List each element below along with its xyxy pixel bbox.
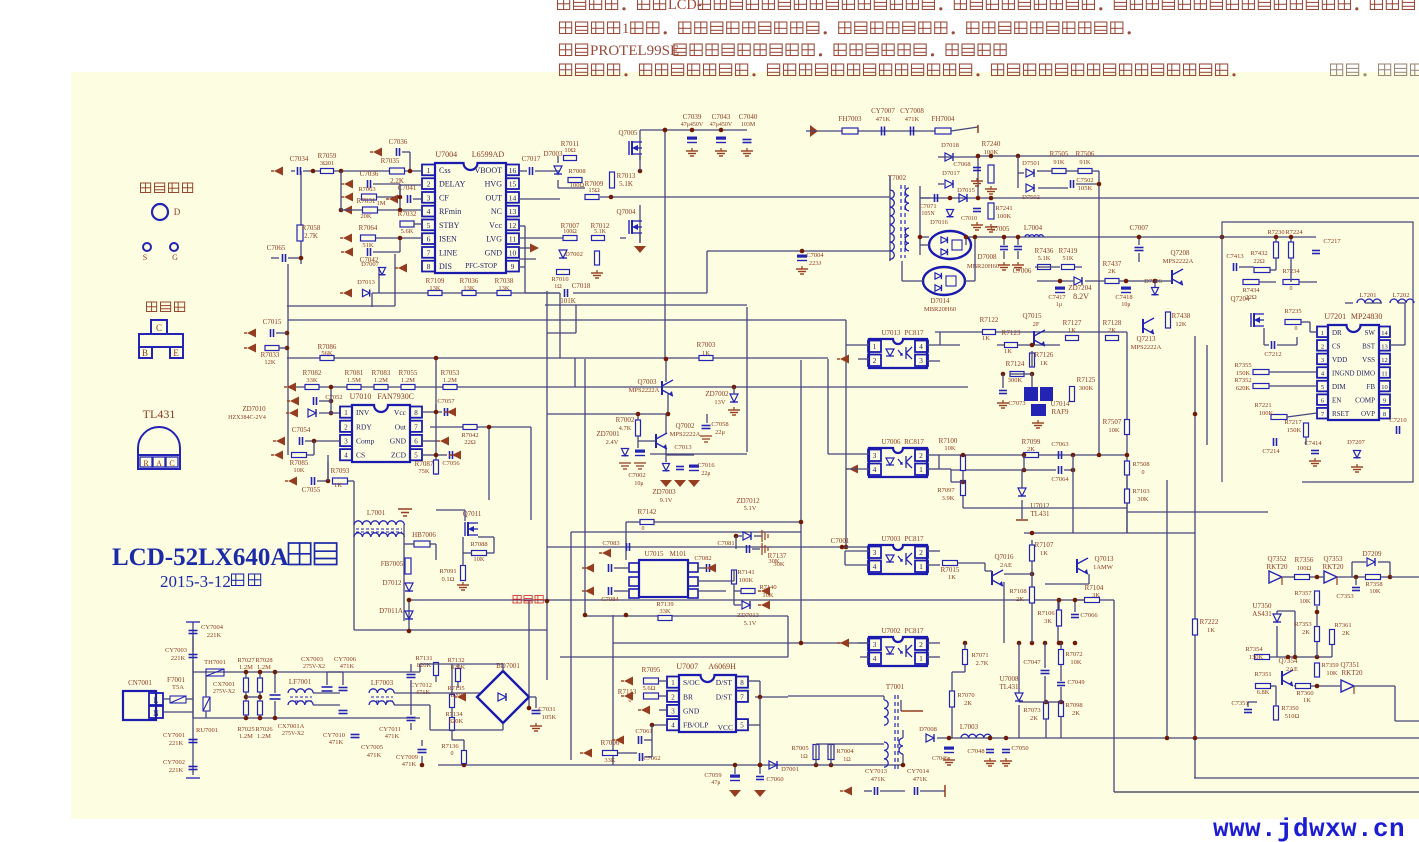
svg-text:3.9K: 3.9K	[942, 495, 955, 502]
svg-text:M101: M101	[670, 550, 687, 558]
svg-text:51K: 51K	[1062, 255, 1074, 262]
svg-text:R7437: R7437	[1103, 260, 1122, 268]
svg-text:R7222: R7222	[1200, 618, 1219, 626]
svg-text:R7217: R7217	[1284, 419, 1302, 426]
svg-text:R7096: R7096	[601, 739, 620, 747]
svg-text:MP24830: MP24830	[1351, 312, 1383, 321]
svg-text:R7126: R7126	[1035, 351, 1054, 359]
svg-text:D7015: D7015	[957, 187, 975, 194]
svg-text:R7073: R7073	[1023, 707, 1040, 714]
svg-text:C7043: C7043	[712, 113, 731, 121]
svg-text:1M: 1M	[376, 200, 385, 207]
svg-text:5.1V: 5.1V	[744, 620, 757, 627]
svg-text:4: 4	[344, 452, 348, 460]
svg-text:2AE: 2AE	[1286, 666, 1298, 673]
svg-text:3: 3	[671, 708, 675, 716]
svg-text:CY7004: CY7004	[201, 624, 224, 631]
svg-text:OUT: OUT	[486, 193, 503, 202]
svg-text:MPS2222A: MPS2222A	[629, 387, 660, 394]
svg-text:INGND: INGND	[1332, 370, 1355, 378]
svg-text:820K: 820K	[417, 662, 432, 669]
svg-text:L6599AD: L6599AD	[472, 150, 505, 159]
svg-text:R7241: R7241	[995, 205, 1012, 212]
svg-text:CY7003: CY7003	[165, 647, 187, 654]
svg-text:R7064: R7064	[359, 224, 378, 232]
svg-text:R7072: R7072	[1065, 651, 1082, 658]
svg-text:1K: 1K	[982, 335, 990, 342]
svg-text:COMP: COMP	[1355, 397, 1375, 405]
svg-text:U7350: U7350	[1252, 602, 1272, 610]
svg-text:C7413: C7413	[1226, 253, 1243, 260]
svg-text:INV: INV	[356, 408, 370, 417]
svg-text:300K: 300K	[1079, 385, 1094, 392]
svg-text:C7010: C7010	[961, 216, 977, 222]
svg-text:R7109: R7109	[426, 277, 445, 285]
svg-text:R7107: R7107	[1035, 541, 1054, 549]
svg-text:1: 1	[873, 342, 877, 351]
svg-text:CF: CF	[439, 193, 449, 202]
svg-text:LINE: LINE	[439, 248, 457, 257]
svg-text:11: 11	[1381, 371, 1387, 378]
svg-text:C7049: C7049	[1067, 679, 1084, 686]
svg-text:CY7007: CY7007	[871, 107, 895, 115]
svg-text:13V: 13V	[714, 399, 726, 406]
svg-text:R7127: R7127	[1063, 319, 1082, 327]
svg-text:R7359: R7359	[1321, 662, 1338, 669]
svg-text:Css: Css	[439, 166, 451, 175]
svg-text:CY7005: CY7005	[361, 744, 383, 751]
svg-text:HB7006: HB7006	[412, 531, 436, 539]
svg-text:2: 2	[919, 640, 923, 649]
svg-text:2: 2	[919, 548, 923, 557]
svg-text:GND: GND	[390, 437, 407, 446]
svg-text:DELAY: DELAY	[439, 180, 466, 189]
svg-text:30K: 30K	[768, 558, 780, 565]
svg-text:R7134: R7134	[445, 711, 463, 718]
svg-text:R7081: R7081	[345, 369, 364, 377]
svg-text:PC817: PC817	[904, 329, 924, 337]
svg-text:B: B	[142, 348, 148, 358]
svg-text:FB/OLP: FB/OLP	[683, 721, 708, 730]
svg-text:R7221: R7221	[1254, 402, 1271, 409]
svg-text:VSS: VSS	[1362, 356, 1375, 364]
svg-text:1.2M: 1.2M	[257, 733, 271, 740]
svg-text:D7002: D7002	[565, 251, 583, 258]
svg-text:C7040: C7040	[739, 113, 758, 121]
svg-text:TL431: TL431	[143, 407, 176, 421]
svg-text:C7212: C7212	[1264, 351, 1281, 358]
svg-text:CX7001: CX7001	[213, 681, 235, 688]
svg-text:C7017: C7017	[522, 155, 541, 163]
svg-text:275V-X2: 275V-X2	[282, 731, 304, 737]
svg-text:22μ: 22μ	[701, 471, 710, 477]
svg-text:CY7013: CY7013	[865, 768, 887, 775]
svg-text:R7139: R7139	[656, 601, 673, 608]
svg-text:C7046: C7046	[932, 756, 948, 762]
svg-text:C7034: C7034	[290, 155, 309, 163]
svg-text:D/ST: D/ST	[716, 678, 733, 687]
svg-text:3: 3	[873, 640, 877, 649]
svg-text:5: 5	[414, 452, 418, 460]
svg-text:13: 13	[1381, 343, 1388, 350]
svg-text:R7104: R7104	[1085, 584, 1104, 592]
svg-text:R7032: R7032	[398, 210, 417, 218]
svg-text:C7047: C7047	[1023, 659, 1041, 666]
svg-text:FH7004: FH7004	[932, 115, 955, 123]
svg-text:10: 10	[1381, 384, 1388, 391]
svg-text:CY7014: CY7014	[907, 768, 930, 775]
svg-text:R7053: R7053	[441, 369, 460, 377]
svg-text:91K: 91K	[1079, 159, 1091, 166]
svg-text:R7058: R7058	[302, 224, 321, 232]
svg-text:MPS2222A: MPS2222A	[1163, 258, 1194, 265]
svg-text:PROTEL99SE: PROTEL99SE	[590, 43, 679, 59]
svg-text:R7351: R7351	[1254, 671, 1271, 678]
svg-text:D7014: D7014	[930, 297, 950, 305]
svg-text:4: 4	[671, 722, 675, 730]
svg-text:DIMO: DIMO	[1356, 370, 1375, 378]
svg-text:R7357: R7357	[1294, 590, 1312, 597]
svg-text:CX7001A: CX7001A	[278, 723, 305, 730]
svg-text:C7351: C7351	[1231, 700, 1248, 707]
svg-text:Q7351: Q7351	[1340, 661, 1360, 669]
svg-text:820K: 820K	[451, 664, 466, 671]
svg-text:R7098: R7098	[1065, 702, 1082, 709]
svg-text:1: 1	[344, 409, 348, 417]
svg-text:R7010: R7010	[551, 276, 568, 283]
svg-text:12K: 12K	[1175, 321, 1187, 328]
svg-text:510Ω: 510Ω	[1285, 713, 1300, 720]
svg-text:2K: 2K	[964, 700, 972, 707]
svg-text:RKT20: RKT20	[1342, 669, 1364, 677]
svg-text:R7028: R7028	[255, 657, 272, 664]
svg-text:1K: 1K	[1040, 550, 1048, 557]
svg-text:D7011A: D7011A	[379, 607, 403, 615]
svg-text:R7432: R7432	[1250, 250, 1267, 257]
svg-text:105K: 105K	[1078, 185, 1093, 192]
svg-text:BD7001: BD7001	[496, 662, 520, 670]
svg-text:221K: 221K	[169, 767, 184, 774]
svg-text:1.2M: 1.2M	[239, 733, 253, 740]
svg-text:R7142: R7142	[638, 508, 657, 516]
svg-text:CY7011: CY7011	[379, 726, 401, 733]
svg-text:Vcc: Vcc	[394, 408, 407, 417]
svg-text:221K: 221K	[207, 632, 222, 639]
svg-text:S: S	[143, 253, 147, 262]
svg-text:D7207: D7207	[1347, 439, 1365, 446]
svg-text:33K: 33K	[604, 757, 616, 764]
svg-text:471K: 471K	[329, 739, 344, 746]
svg-text:EN: EN	[1332, 397, 1341, 405]
svg-text:CY7012: CY7012	[410, 682, 432, 689]
svg-text:R7108: R7108	[1009, 588, 1026, 595]
svg-text:R7106: R7106	[1037, 610, 1055, 617]
svg-text:2: 2	[873, 356, 877, 365]
svg-text:2.7K: 2.7K	[976, 660, 989, 667]
svg-text:R7135: R7135	[447, 685, 464, 692]
svg-text:R7122: R7122	[980, 316, 999, 324]
svg-text:2: 2	[919, 451, 923, 460]
svg-text:471K: 471K	[340, 663, 355, 670]
svg-text:275V-X2: 275V-X2	[213, 689, 235, 695]
svg-text:7: 7	[740, 693, 744, 701]
svg-text:D7018: D7018	[941, 142, 959, 149]
svg-text:C7214: C7214	[1262, 448, 1280, 455]
svg-text:U7014: U7014	[1050, 400, 1070, 408]
svg-text:Q7004: Q7004	[616, 208, 636, 216]
svg-text:12: 12	[509, 221, 517, 230]
svg-text:R7355: R7355	[1234, 362, 1251, 369]
svg-text:A: A	[156, 459, 162, 468]
svg-text:3K: 3K	[1092, 592, 1100, 599]
svg-text:U7010: U7010	[350, 392, 372, 401]
svg-text:4: 4	[873, 654, 877, 663]
svg-text:C7417: C7417	[1048, 294, 1066, 301]
svg-text:471K: 471K	[402, 761, 417, 768]
svg-text:R7071: R7071	[971, 652, 988, 659]
svg-text:CS: CS	[356, 451, 365, 460]
svg-text:33K: 33K	[306, 377, 318, 384]
svg-text:C7050: C7050	[1011, 745, 1028, 752]
svg-text:C7002: C7002	[628, 472, 645, 479]
svg-text:R7099: R7099	[1022, 438, 1041, 446]
svg-text:3: 3	[873, 451, 877, 460]
svg-text:1K: 1K	[1004, 348, 1012, 355]
svg-text:RSET: RSET	[1332, 410, 1350, 418]
svg-text:2: 2	[427, 180, 431, 189]
svg-text:3: 3	[1321, 357, 1324, 364]
svg-text:L7003: L7003	[960, 723, 979, 731]
svg-text:D7501: D7501	[1022, 160, 1040, 167]
svg-text:C7418: C7418	[1115, 294, 1132, 301]
svg-text:R7031: R7031	[357, 197, 376, 205]
svg-text:C7007: C7007	[1130, 224, 1149, 232]
svg-text:R7505: R7505	[1050, 150, 1069, 158]
svg-text:5: 5	[1321, 384, 1324, 391]
svg-text:R7091: R7091	[439, 568, 456, 575]
svg-text:C7004: C7004	[806, 252, 824, 259]
svg-text:CN7001: CN7001	[128, 679, 152, 687]
svg-text:Q7002: Q7002	[675, 422, 695, 430]
svg-text:8: 8	[1383, 411, 1386, 418]
svg-text:275V-X2: 275V-X2	[303, 664, 325, 670]
svg-text:VCC: VCC	[718, 723, 733, 732]
svg-text:MBR20H60: MBR20H60	[924, 306, 956, 313]
svg-text:22Ω: 22Ω	[1253, 258, 1265, 265]
svg-text:100K: 100K	[739, 577, 754, 584]
svg-text:471K: 471K	[913, 776, 928, 783]
svg-text:6.8K: 6.8K	[1257, 689, 1270, 696]
svg-text:10: 10	[509, 248, 517, 257]
svg-text:C7217: C7217	[1323, 238, 1341, 245]
svg-text:L7004: L7004	[1024, 224, 1043, 232]
svg-text:1: 1	[919, 562, 923, 571]
svg-text:471K: 471K	[876, 116, 891, 123]
svg-text:PFC-STOP: PFC-STOP	[465, 262, 497, 270]
svg-text:2015-3-12: 2015-3-12	[160, 572, 231, 591]
svg-text:U7012: U7012	[1030, 502, 1050, 510]
svg-text:4: 4	[427, 207, 431, 216]
svg-text:C7071: C7071	[919, 203, 936, 210]
svg-text:51K: 51K	[362, 242, 374, 249]
svg-text:2: 2	[671, 693, 675, 701]
svg-text:GND: GND	[683, 707, 700, 716]
svg-text:MBR20H60: MBR20H60	[967, 263, 999, 270]
svg-text:3Ω01: 3Ω01	[320, 160, 335, 167]
svg-text:N: N	[153, 709, 159, 718]
svg-text:3: 3	[427, 193, 431, 202]
svg-text:16: 16	[509, 166, 517, 175]
svg-text:D7007: D7007	[361, 261, 379, 268]
svg-text:0: 0	[451, 751, 454, 757]
svg-text:U7013: U7013	[881, 329, 901, 337]
svg-text:Q7213: Q7213	[1136, 335, 1156, 343]
svg-text:AS431: AS431	[1252, 610, 1272, 618]
svg-text:R7360: R7360	[1296, 690, 1313, 697]
svg-text:ZD7010: ZD7010	[242, 405, 266, 413]
svg-text:CY7006: CY7006	[334, 656, 357, 663]
svg-text:12: 12	[1381, 357, 1388, 364]
svg-text:U7004: U7004	[435, 150, 457, 159]
svg-text:F7001: F7001	[167, 676, 185, 684]
svg-text:R7004: R7004	[836, 748, 854, 755]
svg-text:150K: 150K	[1287, 427, 1302, 434]
svg-text:C7073: C7073	[1008, 400, 1025, 407]
svg-text:R7015: R7015	[941, 566, 960, 574]
svg-text:R7035: R7035	[381, 157, 400, 165]
svg-text:105K: 105K	[542, 714, 557, 721]
svg-text:9: 9	[1383, 398, 1386, 405]
svg-text:C7083: C7083	[602, 540, 619, 547]
svg-text:10K: 10K	[1108, 427, 1120, 434]
svg-text:223J: 223J	[809, 260, 822, 267]
svg-text:LCD-: LCD-	[668, 0, 702, 13]
svg-text:0: 0	[1142, 470, 1145, 476]
svg-text:R7506: R7506	[1076, 150, 1095, 158]
svg-text:BST: BST	[1362, 342, 1376, 350]
svg-text:U7006: U7006	[881, 438, 901, 446]
svg-text:C7063: C7063	[1051, 441, 1068, 448]
svg-text:ZD7002: ZD7002	[705, 390, 729, 398]
svg-text:C7001: C7001	[831, 537, 850, 545]
svg-text:130K: 130K	[1249, 654, 1264, 661]
svg-text:471K: 471K	[871, 776, 886, 783]
svg-text:R7124: R7124	[1006, 360, 1025, 368]
svg-text:ZD7013: ZD7013	[737, 612, 759, 619]
svg-text:5: 5	[427, 221, 431, 230]
svg-text:FH7003: FH7003	[839, 115, 862, 123]
svg-text:D7013: D7013	[357, 279, 375, 286]
svg-text:R7097: R7097	[937, 487, 955, 494]
svg-text:13K: 13K	[429, 285, 441, 292]
svg-text:CY7001: CY7001	[163, 732, 185, 739]
svg-text:ISEN: ISEN	[439, 235, 457, 244]
svg-text:TL431: TL431	[1030, 510, 1050, 518]
svg-text:Q7003: Q7003	[637, 378, 657, 386]
svg-text:GND: GND	[485, 248, 503, 257]
svg-text:5.1K: 5.1K	[594, 229, 607, 235]
svg-text:FB: FB	[1366, 383, 1375, 391]
svg-text:Q7354: Q7354	[1278, 657, 1298, 665]
svg-text:R7434: R7434	[1242, 287, 1260, 294]
svg-text:R7093: R7093	[331, 467, 350, 475]
svg-text:R7042: R7042	[461, 432, 478, 439]
svg-text:R7070: R7070	[957, 692, 974, 699]
svg-text:U7002: U7002	[881, 627, 901, 635]
svg-text:R7083: R7083	[372, 369, 391, 377]
svg-text:1K: 1K	[334, 482, 342, 489]
svg-text:47μ: 47μ	[711, 780, 720, 786]
svg-text:C7006: C7006	[1013, 267, 1032, 275]
svg-text:U7015: U7015	[644, 550, 664, 558]
svg-text:5.1K: 5.1K	[1038, 255, 1051, 262]
svg-text:2AE: 2AE	[1000, 562, 1012, 569]
svg-text:10K: 10K	[1326, 670, 1338, 677]
svg-text:R7088: R7088	[470, 541, 487, 548]
svg-text:R7419: R7419	[1059, 247, 1078, 255]
svg-text:3: 3	[919, 356, 923, 365]
svg-text:R7224: R7224	[1285, 229, 1303, 236]
svg-text:R7036: R7036	[460, 277, 479, 285]
svg-text:SW: SW	[1365, 329, 1376, 337]
svg-text:C7061: C7061	[635, 728, 652, 735]
svg-text:Q7204: Q7204	[1230, 295, 1250, 303]
svg-text:33K: 33K	[659, 608, 671, 615]
svg-text:L: L	[154, 696, 159, 705]
svg-text:100K: 100K	[1259, 410, 1274, 417]
svg-text:ZD7012: ZD7012	[736, 497, 760, 505]
svg-text:LVG: LVG	[486, 235, 502, 244]
svg-text:Q7005: Q7005	[618, 129, 638, 137]
svg-text:R7103: R7103	[1132, 488, 1149, 495]
svg-text:2: 2	[1321, 343, 1324, 350]
svg-text:4: 4	[873, 562, 877, 571]
svg-text:221K: 221K	[169, 740, 184, 747]
svg-text:FAN7930C: FAN7930C	[377, 392, 414, 401]
svg-text:10K: 10K	[1369, 588, 1381, 595]
svg-text:LF7001: LF7001	[289, 678, 312, 686]
svg-text:75K: 75K	[418, 468, 430, 475]
svg-text:RFmin: RFmin	[439, 207, 461, 216]
svg-text:2K: 2K	[1016, 596, 1024, 603]
svg-text:C7054: C7054	[292, 426, 311, 434]
svg-text:13: 13	[509, 207, 517, 216]
svg-text:R7507: R7507	[1103, 418, 1122, 426]
svg-text:R7100: R7100	[939, 437, 958, 445]
svg-text:1Ω: 1Ω	[800, 754, 808, 760]
svg-text:R7063: R7063	[358, 186, 375, 193]
svg-text:10Ω: 10Ω	[564, 147, 576, 154]
svg-text:D7502: D7502	[1022, 194, 1040, 201]
svg-text:HVG: HVG	[485, 180, 503, 189]
svg-text:2K: 2K	[1342, 630, 1350, 637]
svg-text:U7003: U7003	[881, 535, 901, 543]
svg-text:RKT20: RKT20	[1267, 563, 1289, 571]
svg-text:R: R	[143, 459, 149, 468]
svg-text:RKT20: RKT20	[1323, 563, 1345, 571]
svg-text:U7201: U7201	[1324, 312, 1346, 321]
svg-text:5: 5	[740, 722, 744, 730]
svg-text:1.2M: 1.2M	[443, 377, 457, 384]
svg-text:R7059: R7059	[318, 152, 337, 160]
svg-text:D7012: D7012	[382, 579, 402, 587]
svg-text:PC817: PC817	[904, 627, 924, 635]
svg-text:1: 1	[1321, 330, 1324, 337]
svg-text:C7036: C7036	[389, 138, 408, 146]
svg-text:1: 1	[919, 654, 923, 663]
svg-text:5.1V: 5.1V	[744, 505, 757, 512]
svg-text:8.2V: 8.2V	[1073, 292, 1089, 301]
